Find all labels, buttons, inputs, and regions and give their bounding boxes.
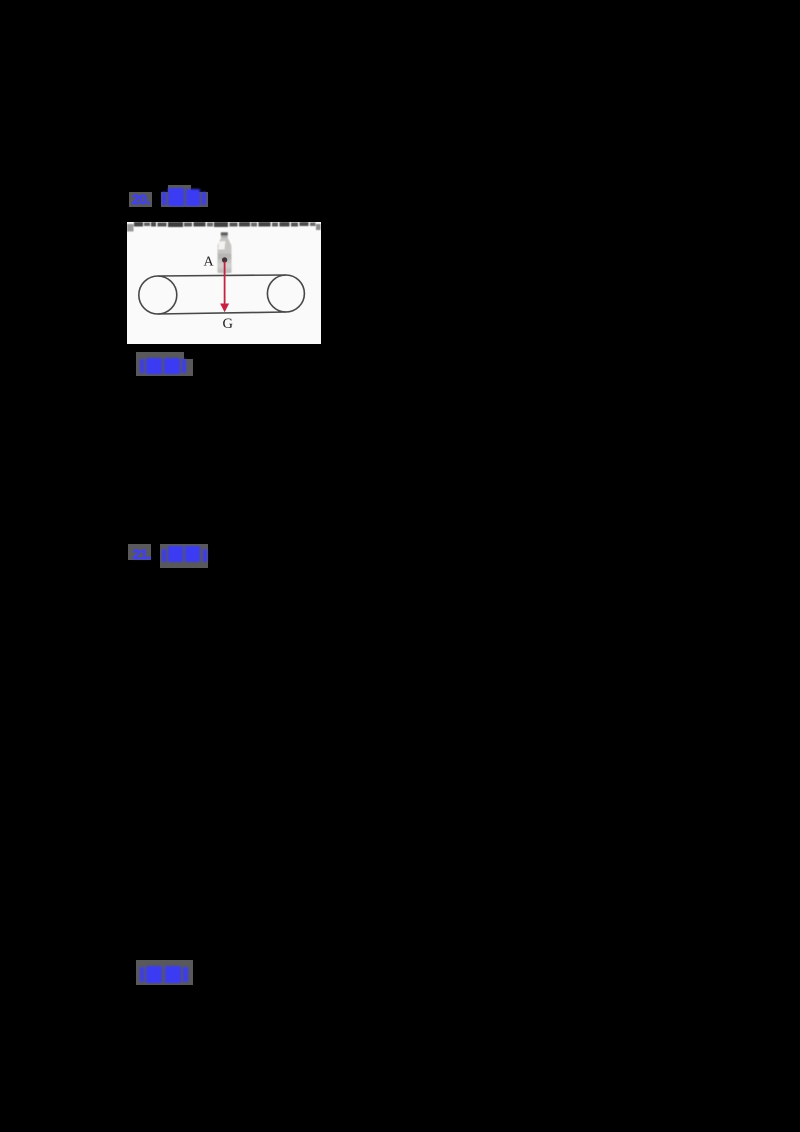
svg-text:G: G: [223, 316, 234, 332]
svg-text:A: A: [204, 255, 215, 270]
